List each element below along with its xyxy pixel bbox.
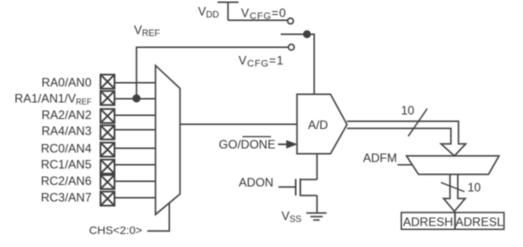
ADFM format multiplexer (407, 156, 500, 175)
svg-text:RC0/AN4: RC0/AN4 (41, 141, 92, 155)
label CHS<2:0> (89, 225, 143, 237)
svg-text:VSS: VSS (282, 209, 302, 224)
pin box RA2/AN2 (101, 109, 115, 123)
svg-text:GO/DONE: GO/DONE (219, 138, 276, 152)
pin RA1/AN1/VREF label (15, 92, 92, 107)
wire RA2/AN2 to mux (115, 114, 156, 116)
pin box RC0/AN4 (101, 143, 115, 157)
svg-text:VCFG=0: VCFG=0 (241, 6, 286, 22)
pin RA4/AN3 label (41, 124, 91, 138)
pin RA0/AN0 label (41, 76, 91, 90)
svg-text:10: 10 (468, 181, 482, 195)
label GO/DONE (DONE with overline) (219, 138, 276, 152)
label VCFG=1 (239, 54, 284, 70)
switch contact VCFG=1 (288, 44, 294, 50)
svg-text:ADRESL: ADRESL (455, 215, 503, 229)
wire RC0/AN4 to mux (115, 147, 156, 149)
label VREF (134, 23, 161, 38)
bus width slash (upper) (408, 109, 427, 137)
switch pole wire (281, 33, 307, 35)
label VDD (198, 5, 220, 20)
svg-text:RC3/AN7: RC3/AN7 (41, 191, 92, 205)
switch contact VCFG=0 (288, 18, 294, 24)
svg-text:ADFM: ADFM (363, 151, 397, 165)
bus 10-bit A/D output with hollow down arrow (347, 121, 466, 156)
svg-text:RC2/AN6: RC2/AN6 (41, 174, 92, 188)
wire RA4/AN3 to mux (115, 129, 156, 131)
svg-text:A/D: A/D (308, 118, 328, 132)
label 10 (lower) (468, 181, 482, 195)
svg-text:ADRESH: ADRESH (403, 215, 453, 229)
wire mux output to A/D (180, 123, 297, 125)
label ADON (239, 176, 274, 190)
svg-text:VDD: VDD (198, 5, 220, 20)
arrow GO/DONE into A/D (278, 143, 288, 145)
svg-text:RC1/AN5: RC1/AN5 (41, 158, 92, 172)
wire VREF (from RA1 junction up and right to VCFG=1 contact) (137, 47, 289, 98)
svg-text:RA0/AN0: RA0/AN0 (41, 76, 91, 90)
bus width slash (lower) (441, 183, 465, 192)
label ADFM (363, 151, 397, 165)
wire RC1/AN5 to mux (115, 164, 156, 166)
ground symbol VSS (306, 213, 326, 220)
pin RC0/AN4 label (41, 141, 92, 155)
wire RA1/AN1/VREF to mux (115, 98, 156, 100)
wire RC2/AN6 to mux (115, 180, 156, 182)
wire ADFM label to format mux (398, 164, 413, 166)
wire CHS select to mux (147, 203, 169, 231)
overline over DONE (243, 136, 272, 138)
node RA1/VREF junction (133, 95, 140, 102)
svg-text:VREF: VREF (134, 23, 161, 38)
label 10 (upper) (401, 104, 415, 118)
wire transistor source to ground (316, 196, 318, 214)
register ADRESL (455, 213, 504, 230)
pin box RA1/AN1/VREF (101, 91, 115, 105)
pin RC3/AN7 label (41, 191, 92, 205)
pin RA2/AN2 label (41, 108, 91, 122)
svg-text:ADON: ADON (239, 176, 274, 190)
pin RC1/AN5 label (41, 158, 92, 172)
pin box RC1/AN5 (101, 160, 115, 174)
svg-text:RA4/AN3: RA4/AN3 (41, 124, 91, 138)
bus ADFM to result registers with hollow down arrow (444, 174, 466, 211)
wire A/D bottom to transistor drain (316, 154, 318, 180)
register ADRESH (401, 213, 455, 230)
node switch pole junction (304, 31, 310, 37)
wire switch pole to A/D top (307, 34, 314, 94)
svg-text:10: 10 (401, 104, 415, 118)
VDD power symbol (218, 2, 239, 20)
wire RA0/AN0 to mux (115, 82, 156, 84)
transistor Q1 ADON pass transistor (296, 179, 317, 197)
svg-text:RA2/AN2: RA2/AN2 (41, 108, 91, 122)
label VSS (282, 209, 302, 224)
pin box RA4/AN3 (101, 125, 115, 139)
label A/D (308, 118, 328, 132)
svg-text:CHS<2:0>: CHS<2:0> (89, 225, 143, 237)
pin box RC3/AN7 (101, 192, 115, 206)
label VCFG=0 (241, 6, 286, 22)
pin RC2/AN6 label (41, 174, 92, 188)
analog input multiplexer (156, 66, 181, 215)
wire ADON to transistor gate (279, 186, 296, 188)
svg-text:VCFG=1: VCFG=1 (239, 54, 284, 70)
svg-text:RA1/AN1/VREF: RA1/AN1/VREF (15, 92, 92, 107)
A/D converter block U1 (297, 94, 347, 154)
wire RC3/AN7 to mux (115, 197, 156, 199)
wire VDD to VCFG=0 contact (228, 19, 288, 21)
pin box RA0/AN0 (101, 75, 115, 89)
pin box RC2/AN6 (101, 175, 115, 189)
